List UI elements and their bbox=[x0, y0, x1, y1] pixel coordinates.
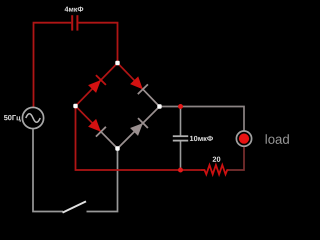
AC source sine symbol bbox=[26, 114, 40, 123]
wire switch right to bridge bottom node bbox=[87, 150, 118, 212]
bridge edge left-bottom: gray part diode to bottom node bbox=[101, 132, 118, 149]
bridge edge top-right: gray part diode to right node bbox=[143, 89, 160, 106]
diode D3 cathode bar (gray) bbox=[96, 127, 106, 137]
svg-text:load: load bbox=[265, 132, 290, 147]
wire bridge left node down to bottom rail then to resistor (red) bbox=[76, 107, 202, 170]
diode D1 triangle (red, pointing to top node) bbox=[88, 80, 101, 93]
capacitor C2 plates bbox=[173, 135, 188, 137]
diode D2 cathode bar (gray) bbox=[138, 84, 148, 94]
capacitor C2 bottom lead (gray) bbox=[180, 141, 182, 170]
bridge node left (white) bbox=[73, 104, 77, 108]
svg-text:20: 20 bbox=[212, 155, 220, 164]
wire from AC source top up-left loop to bridge top bbox=[34, 23, 72, 108]
diode D2 triangle (red, pointing to right node) bbox=[130, 76, 143, 89]
wire AC source bottom to switch (gray) bbox=[33, 129, 63, 212]
wire capacitor C1 right lead to bridge top node bbox=[78, 23, 117, 62]
resistor R1 zigzag (red) bbox=[201, 165, 229, 174]
switch S1 lever bbox=[63, 201, 87, 212]
svg-text:10мкФ: 10мкФ bbox=[189, 134, 213, 143]
junction node top (red) bbox=[178, 104, 183, 109]
diode D4 triangle (gray, pointing to right node) bbox=[130, 123, 143, 136]
AC source V1 circle bbox=[22, 107, 43, 128]
bridge edge left-top (red wire) bbox=[76, 63, 118, 106]
diode D3 triangle (red, pointing to bottom node) bbox=[88, 119, 101, 132]
wire bridge right node to top-right corner down to load top (gray) bbox=[160, 107, 244, 132]
svg-text:50Гц: 50Гц bbox=[4, 113, 21, 122]
bridge edge top-right: red part top node to diode bbox=[118, 63, 143, 89]
bridge node bottom (white) bbox=[115, 146, 119, 150]
load lamp red core bbox=[239, 134, 249, 144]
diode D4 cathode bar (gray) bbox=[138, 118, 148, 128]
wire resistor to load bottom (dark red) bbox=[229, 146, 245, 170]
bridge node top (white) bbox=[115, 61, 119, 65]
junction node bottom (red) bbox=[178, 168, 183, 173]
diode D1 cathode bar (red) bbox=[96, 75, 106, 85]
bridge edge bottom-right (gray wire) bbox=[118, 107, 160, 149]
capacitor C1 4uF plates bbox=[71, 15, 73, 30]
capacitor C2 top lead (gray) bbox=[180, 107, 182, 137]
bridge node right (white) bbox=[157, 104, 161, 108]
load lamp outer ring (gray) bbox=[236, 131, 251, 146]
bridge edge left-bottom: red part left node to diode bbox=[76, 106, 101, 132]
svg-text:4мкФ: 4мкФ bbox=[64, 5, 83, 14]
